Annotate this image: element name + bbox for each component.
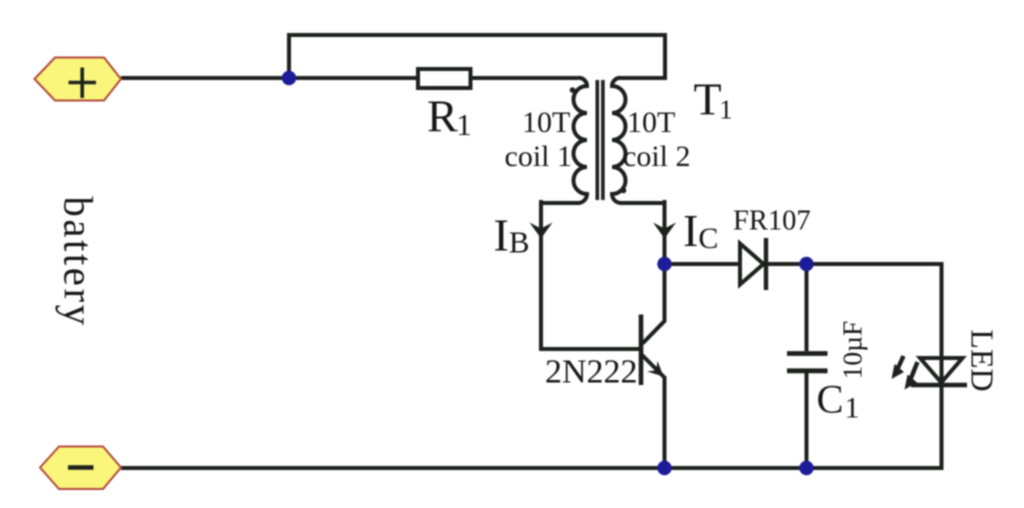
svg-text:R1: R1 bbox=[427, 91, 472, 143]
svg-text:coil 1: coil 1 bbox=[505, 140, 573, 173]
transformer core bbox=[597, 80, 603, 200]
svg-text:10T: 10T bbox=[627, 106, 675, 139]
wire base horizontal bbox=[539, 347, 639, 351]
wire coil1 bottom lead bbox=[541, 201, 580, 205]
diode cathode bar bbox=[764, 238, 768, 290]
resistor R1 bbox=[418, 69, 471, 88]
wire bottom rail from battery minus bbox=[121, 466, 944, 470]
svg-text:2N222: 2N222 bbox=[545, 354, 638, 391]
IC current arrowhead bbox=[653, 223, 676, 239]
node junction dot top-left bbox=[282, 71, 296, 85]
LED light arrow 1 bbox=[897, 356, 904, 370]
svg-text:IB: IB bbox=[494, 210, 530, 261]
capacitor C1 plates bbox=[787, 354, 828, 371]
diode FR107 bbox=[740, 238, 766, 290]
battery plus terminal bbox=[35, 58, 122, 101]
svg-text:10µF: 10µF bbox=[837, 321, 868, 380]
wire + rail from battery plus to coil1 top bbox=[121, 76, 578, 80]
wire capacitor bottom vertical bbox=[805, 373, 809, 468]
svg-text:FR107: FR107 bbox=[733, 206, 811, 237]
node junction dot cap bottom bbox=[799, 461, 813, 475]
battery minus terminal bbox=[40, 447, 121, 490]
wire right column vertical with LED gap bbox=[940, 262, 944, 468]
transistor emitter diagonal bbox=[642, 355, 666, 379]
wire diode cathode to right column bbox=[766, 262, 942, 266]
transformer T1 coil 1 winding bbox=[574, 78, 588, 203]
wire right drop from top rail to coil2 lead bbox=[663, 33, 667, 78]
wire top feedback rail bbox=[287, 33, 665, 37]
transistor base bar bbox=[639, 315, 644, 386]
wire capacitor top vertical bbox=[805, 264, 809, 351]
LED bbox=[892, 356, 968, 390]
transformer phase dot coil1 bbox=[570, 87, 576, 93]
node junction dot collector bbox=[657, 257, 671, 271]
LED triangle bbox=[920, 358, 963, 383]
node junction dot cap top bbox=[799, 257, 813, 271]
svg-text:T1: T1 bbox=[694, 74, 733, 125]
LED light arrow 2 bbox=[910, 362, 918, 381]
transformer T1 coil 2 winding bbox=[612, 78, 626, 203]
wire emitter vertical bbox=[663, 378, 667, 468]
transformer phase dot coil2 bbox=[621, 188, 627, 194]
transistor emitter arrowhead bbox=[647, 361, 664, 377]
diode triangle bbox=[740, 244, 764, 285]
wire coil2 bottom lead, IC vertical and transistor collector diagonal bbox=[620, 200, 665, 344]
wire junction riser above plus rail bbox=[287, 35, 291, 80]
wire coil2 top lead bbox=[620, 76, 667, 80]
wire collector to diode horizontal bbox=[665, 262, 741, 266]
svg-text:coil 2: coil 2 bbox=[623, 140, 691, 173]
transistor Q1 2N222 bbox=[641, 315, 666, 386]
svg-text:IC: IC bbox=[683, 205, 718, 256]
node junction dot emitter bottom bbox=[657, 461, 671, 475]
IB current arrowhead bbox=[530, 223, 553, 239]
svg-text:C1: C1 bbox=[817, 377, 860, 425]
wire IB vertical bbox=[539, 200, 543, 351]
LED cathode bar bbox=[911, 383, 967, 387]
svg-text:LED: LED bbox=[965, 329, 1001, 391]
svg-text:10T: 10T bbox=[522, 106, 570, 139]
svg-text:battery: battery bbox=[56, 196, 102, 327]
